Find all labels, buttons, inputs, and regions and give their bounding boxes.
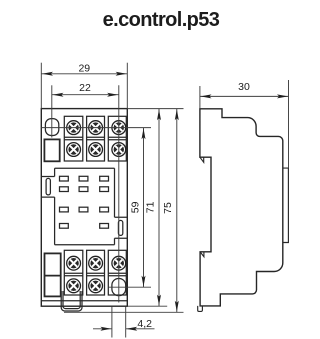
center line col3 / 22 right extension (118, 85, 120, 302)
pin slots row 2 (60, 187, 69, 192)
svg-text:71: 71 (145, 201, 157, 213)
middle socket outline with side tabs (41, 168, 127, 245)
top terminal column 2 (87, 116, 105, 161)
center line left hole / 22 left extension (51, 85, 53, 137)
side view right flange (283, 168, 289, 242)
screw top row2 col1 (67, 143, 81, 157)
side view hook tooth lower (200, 252, 204, 257)
bottom edge extension to right (127, 305, 167, 307)
svg-text:e.control.p53: e.control.p53 (103, 9, 220, 31)
75 dim arrows (175, 109, 179, 120)
screw bottom row1 col2 (89, 256, 103, 270)
DIN clip outer (61, 291, 82, 311)
29 right extension (126, 63, 128, 109)
30 dim arrows (201, 94, 212, 98)
screw top row1 col3 (112, 121, 126, 135)
bottom oval mounting slot (112, 279, 126, 296)
71 dimension line (158, 109, 160, 307)
bottom terminal column 1 (64, 250, 83, 295)
svg-text:29: 29 (78, 62, 90, 74)
bottom block dividers (64, 273, 126, 276)
screw top row1 col2 (89, 121, 103, 135)
screw bottom row2 col1 (67, 279, 81, 293)
screw bottom row2 col2 (89, 279, 103, 293)
bottom base line (41, 300, 127, 302)
top block dividers (64, 137, 126, 139)
top terminal column 3 (108, 116, 126, 161)
center lines (41, 63, 288, 338)
29 dim arrows (42, 72, 53, 76)
front view body outline (41, 109, 127, 307)
75 bottom anchor line (64, 311, 184, 313)
top terminal column 1 (64, 116, 83, 161)
29 left extension (40, 63, 42, 109)
screw top row2 col2 (89, 143, 103, 157)
30 dimension line (200, 95, 289, 97)
pin slots row 4 (60, 224, 69, 229)
screw bottom row1 col1 (67, 256, 81, 270)
59 dim arrows (142, 128, 146, 139)
top-left thick cell (44, 139, 59, 161)
svg-text:75: 75 (162, 202, 174, 214)
pin slots row 3 (60, 207, 69, 212)
4,2 right arrow shaft (126, 328, 155, 330)
75 dimension line (176, 109, 178, 313)
screw top row1 col1 (67, 121, 81, 135)
29 dimension line (41, 73, 127, 75)
pin slots row 1 (60, 176, 69, 181)
4,2 left arrow shaft (93, 328, 112, 330)
22 dimension line (52, 94, 119, 96)
center line bottom slot row (109, 286, 152, 288)
top edge extension to right (127, 108, 183, 110)
DIN clip inner (63, 291, 80, 309)
screw top row2 col3 (112, 143, 126, 157)
30 left extension (199, 86, 201, 109)
screw bottom row1 col3 (112, 256, 126, 270)
4,2 left extension (111, 307, 113, 338)
4,2 dim arrows (100, 327, 111, 331)
30 right extension (288, 80, 290, 168)
4,2 right extension (125, 307, 127, 338)
71 dim arrows (157, 109, 161, 120)
svg-text:59: 59 (130, 201, 142, 213)
22 dim arrows (53, 93, 64, 97)
top-left stadium hole (45, 119, 58, 136)
center line top screw row (41, 127, 151, 129)
bottom-left cell block (45, 253, 61, 296)
left small slot (46, 178, 50, 195)
svg-text:4,2: 4,2 (137, 318, 152, 330)
bottom terminal column 3 (108, 250, 126, 295)
side view bottom foot (198, 306, 203, 312)
side view main profile (200, 109, 283, 306)
59 dimension line (143, 128, 145, 288)
arrowheads (42, 72, 288, 331)
svg-text:22: 22 (79, 82, 91, 94)
right small slot (118, 220, 122, 235)
svg-text:30: 30 (238, 81, 250, 93)
bottom terminal column 2 (87, 250, 105, 295)
side view hook tooth upper (200, 157, 204, 162)
